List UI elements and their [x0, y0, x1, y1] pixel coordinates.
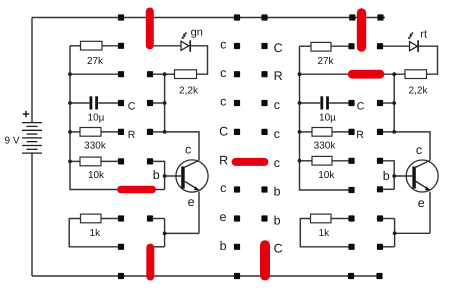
resistor R9 1k [311, 214, 332, 223]
wire bottom rail 0V [32, 275, 383, 277]
wire 10k R3 leads [70, 160, 80, 162]
wire emitter stub row8 [150, 246, 165, 248]
svg-text:10µ: 10µ [88, 112, 105, 123]
wire emitter chain vertical [164, 219, 166, 247]
svg-text:b: b [274, 184, 281, 198]
jumper red bottom-middle [260, 245, 270, 275]
wire pad row4 stub [150, 131, 165, 133]
wire pad row4 stub right [380, 131, 394, 133]
wire 1k R4 right lead [101, 218, 121, 220]
wire base chain Q2 lower [380, 188, 394, 190]
wire base stub Q1 [165, 175, 182, 177]
node pads right column A [348, 43, 354, 49]
capacitor C1 10µ [91, 96, 97, 109]
wire C1 right lead to pad C [98, 102, 121, 104]
svg-text:e: e [188, 195, 195, 209]
jumper red top-left [146, 12, 154, 46]
jumper red bottom-left [146, 248, 154, 277]
resistor R10 2,2k [405, 70, 427, 79]
svg-text:9 V: 9 V [5, 136, 20, 147]
resistor R6 27k [311, 42, 331, 51]
wire pad row3 stub right [380, 102, 394, 104]
wire 330k R2 leads [70, 131, 80, 133]
wire base chain Q1 [150, 161, 165, 189]
resistor R3 10k [80, 157, 101, 166]
svg-text:c: c [274, 156, 280, 170]
node pads middle column B [261, 43, 267, 49]
junction dots right inner rail [298, 72, 302, 76]
svg-text:c: c [220, 38, 226, 52]
resistor R2 330k [80, 128, 101, 137]
wire row2 rail to red jumper [300, 73, 351, 75]
svg-text:c: c [220, 95, 226, 109]
svg-text:1k: 1k [90, 228, 102, 239]
wire left outer rail upper [31, 18, 33, 123]
svg-text:C: C [274, 242, 283, 256]
wire emitter vertical Q2 [429, 192, 431, 234]
wire base chain Q2 upper [380, 161, 394, 190]
svg-text:10µ: 10µ [319, 112, 336, 123]
node pads left column A [118, 43, 124, 49]
svg-text:10k: 10k [318, 170, 335, 181]
node pads left column B [147, 71, 153, 77]
svg-text:R: R [274, 69, 283, 83]
junction dot base node Q2 [392, 174, 396, 178]
wire pad row3 stub [150, 102, 165, 104]
svg-text:2,2k: 2,2k [179, 85, 199, 96]
svg-text:2,2k: 2,2k [409, 85, 429, 96]
wire 10k R8 leads [300, 160, 313, 162]
jumper red top-right [357, 13, 366, 47]
resistor R5 2,2k [175, 70, 197, 79]
svg-text:R: R [128, 129, 136, 141]
jumper red middle row5 [236, 158, 265, 166]
svg-text:R: R [356, 129, 364, 141]
wire 2,2k R5 left lead [165, 73, 175, 75]
svg-text:C: C [357, 100, 365, 112]
svg-text:10k: 10k [88, 170, 105, 181]
battery B1 9V [22, 111, 42, 153]
wire emitter stub row7 right [380, 218, 395, 220]
wire C1 left lead [70, 102, 89, 104]
svg-text:R: R [219, 154, 228, 168]
svg-text:b: b [220, 239, 227, 253]
svg-text:c: c [220, 181, 226, 195]
wire collector chain vertical right [393, 74, 395, 132]
wire right inner rail [300, 46, 352, 190]
svg-text:b: b [153, 168, 160, 182]
wire 27k R1 left lead [70, 45, 81, 47]
svg-text:C: C [219, 124, 228, 138]
jumper red left row6 [121, 186, 153, 193]
transistor Q2 [406, 160, 438, 192]
LED D1 gn [181, 33, 190, 52]
wire collector run to Q2 [394, 132, 430, 160]
wire C2 right lead [329, 102, 351, 104]
transistor Q1 [176, 160, 208, 192]
svg-text:330k: 330k [314, 140, 337, 151]
svg-text:C: C [274, 41, 283, 55]
wire C2 left lead [300, 102, 321, 104]
wire collector chain vertical [164, 74, 166, 132]
wire emitter stub row7 [150, 218, 165, 220]
svg-text:c: c [185, 142, 191, 156]
wire 330k R7 leads [300, 131, 313, 133]
LED D2 rt [408, 33, 418, 52]
wire emitter vertical Q1 [198, 192, 200, 234]
jumper red right row2 [352, 70, 380, 79]
wire LED D2 cathode down to 2,2k [419, 46, 438, 74]
svg-text:b: b [274, 213, 281, 227]
wire emitter stub row8 right [380, 246, 395, 248]
node pads top rail [118, 14, 124, 20]
wire 27k R6 left lead [300, 45, 312, 47]
node pads middle column A [234, 43, 240, 49]
wire row1 pad to LED D2 [380, 45, 410, 47]
wire LED cathode down to 2,2k [191, 46, 208, 74]
wire 27k R6 right lead [331, 45, 352, 47]
junction dots right collector chain [392, 72, 396, 76]
wire 27k R1 right lead to pad [102, 45, 121, 47]
svg-text:e: e [418, 196, 425, 210]
junction dots left inner rail [68, 72, 72, 76]
svg-text:330k: 330k [84, 140, 107, 151]
resistor R8 10k [312, 156, 332, 165]
resistor R4 1k [81, 214, 102, 223]
junction dot emitter node Q2 [393, 231, 397, 235]
svg-text:rt: rt [420, 28, 427, 40]
svg-text:27k: 27k [317, 56, 334, 67]
node pads right column B [377, 43, 383, 49]
svg-text:gn: gn [191, 27, 203, 39]
junction dots left collector chain [163, 72, 167, 76]
wire 1k R9 loop [300, 219, 351, 247]
wire left outer rail lower [31, 153, 33, 276]
svg-text:c: c [220, 66, 226, 80]
wire red jumper to 2,2k R10 [383, 73, 405, 75]
wire emitter chain vertical Q2 [394, 219, 396, 247]
node pads bottom rail [118, 273, 124, 279]
wire top rail +9V [32, 17, 385, 19]
junction dot emitter node Q1 [163, 232, 167, 236]
svg-text:1k: 1k [319, 228, 331, 239]
wire row1 pad to LED anode [150, 45, 181, 47]
wire collector run to Q1 [165, 132, 199, 160]
svg-text:C: C [128, 100, 136, 112]
capacitor C2 10µ [322, 96, 328, 109]
wire 1k R4 loop [69, 219, 121, 247]
svg-text:c: c [274, 127, 280, 141]
wire emitter run left Q2 [395, 232, 430, 234]
resistor R7 330k [312, 128, 332, 137]
svg-text:e: e [219, 210, 226, 224]
wire 1k R9 right lead [331, 218, 352, 220]
junction dot base node Q1 [163, 174, 167, 178]
svg-text:27k: 27k [87, 56, 104, 67]
svg-text:c: c [274, 98, 280, 112]
svg-text:b: b [383, 169, 390, 183]
wire base stub Q2 [394, 175, 412, 177]
resistor R1 27k [81, 41, 103, 50]
wire pad row2 to junction [150, 73, 165, 75]
wire left inner rail [70, 46, 165, 190]
wire emitter run left [165, 232, 199, 234]
wire row2 rail to pad [70, 73, 121, 75]
svg-text:c: c [416, 143, 422, 157]
